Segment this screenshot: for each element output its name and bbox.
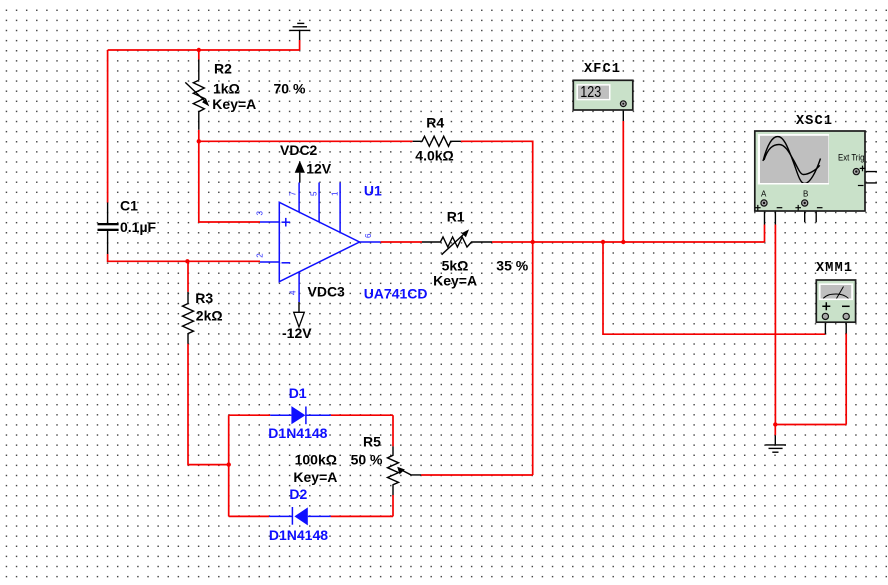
svg-text:XFC1: XFC1 [584, 62, 621, 77]
svg-text:XSC1: XSC1 [796, 114, 833, 129]
svg-text:D1: D1 [289, 385, 307, 401]
svg-text:2: 2 [256, 253, 265, 258]
svg-text:Key=A: Key=A [433, 273, 477, 289]
svg-text:B: B [803, 190, 808, 199]
svg-text:C1: C1 [120, 198, 138, 214]
svg-text:1: 1 [330, 191, 339, 196]
svg-text:R5: R5 [363, 434, 381, 450]
svg-text:-12V: -12V [282, 325, 312, 341]
svg-text:R1: R1 [447, 209, 465, 225]
svg-text:UA741CD: UA741CD [364, 285, 428, 301]
svg-text:R4: R4 [426, 114, 444, 130]
svg-text:A: A [761, 190, 767, 199]
svg-text:Ext Trig: Ext Trig [838, 153, 865, 163]
svg-text:R2: R2 [214, 61, 232, 77]
svg-text:D1N4148: D1N4148 [268, 425, 327, 441]
svg-text:5: 5 [309, 191, 318, 196]
svg-text:D1N4148: D1N4148 [269, 527, 328, 543]
svg-text:R3: R3 [195, 290, 213, 306]
svg-text:VDC2: VDC2 [280, 142, 318, 158]
svg-text:D2: D2 [289, 486, 307, 502]
svg-text:3: 3 [256, 211, 265, 216]
svg-text:4.0kΩ: 4.0kΩ [415, 147, 453, 163]
svg-text:100kΩ: 100kΩ [295, 452, 337, 468]
svg-text:35 %: 35 % [496, 258, 528, 274]
svg-text:6: 6 [364, 233, 373, 238]
svg-text:Key=A: Key=A [293, 469, 337, 485]
svg-text:1kΩ: 1kΩ [213, 81, 240, 97]
svg-text:Key=A: Key=A [212, 96, 256, 112]
svg-text:70 %: 70 % [274, 81, 306, 97]
svg-text:U1: U1 [364, 183, 382, 199]
svg-text:2kΩ: 2kΩ [196, 308, 223, 324]
svg-text:12V: 12V [306, 161, 332, 177]
svg-text:123: 123 [580, 84, 601, 101]
svg-text:VDC3: VDC3 [308, 284, 346, 300]
svg-text:4: 4 [288, 290, 297, 295]
svg-text:50 %: 50 % [351, 452, 383, 468]
svg-text:XMM1: XMM1 [816, 261, 853, 276]
svg-text:0.1µF: 0.1µF [120, 219, 157, 235]
svg-text:5kΩ: 5kΩ [442, 258, 469, 274]
svg-text:7: 7 [289, 191, 298, 196]
